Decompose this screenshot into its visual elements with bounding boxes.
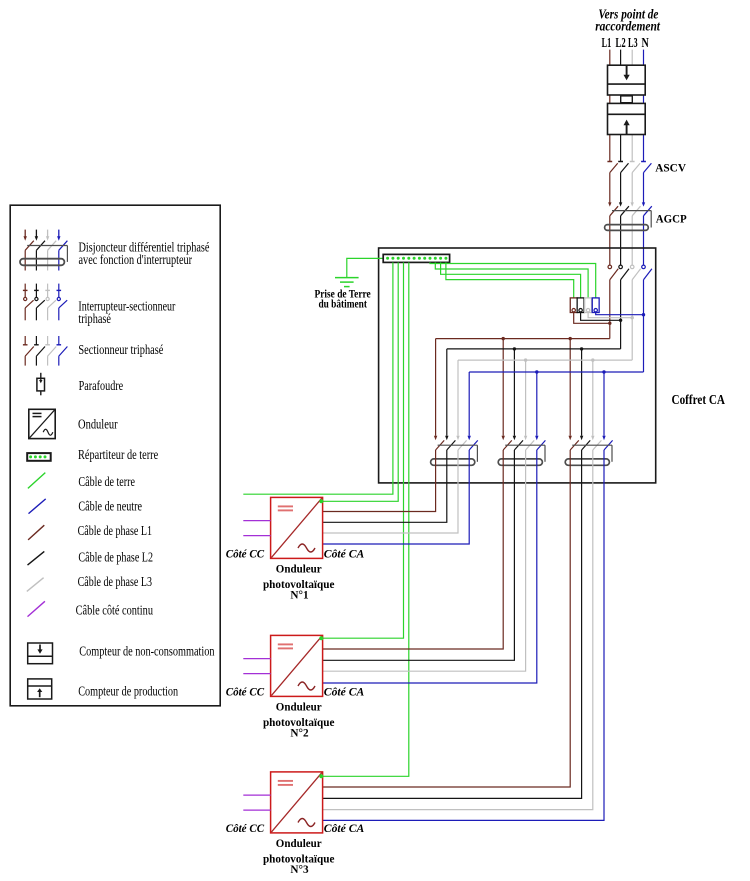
legend: cable cote continu sample [28, 601, 45, 616]
wire L3 meter to ASCV [631, 135, 633, 162]
svg-text:N°3: N°3 [290, 862, 308, 876]
wire terre to parafoudre 3 [441, 262, 581, 298]
wire bus L1 drop to disjoncteur 3 [569, 339, 571, 436]
svg-text:N°1: N°1 [290, 587, 308, 601]
wire L1 switch to bus [609, 280, 611, 339]
wire parafoudre 1 to L1 [574, 313, 610, 324]
disjoncteur differentiel depart onduleur 1 [431, 436, 478, 466]
wire N between meters [643, 95, 645, 103]
disjoncteur differentiel AGCP [605, 202, 652, 264]
wire L3 between meters [631, 95, 633, 103]
wire bus N drop to disjoncteur 1 [468, 372, 470, 436]
wire terre to parafoudre 1 [430, 262, 596, 298]
onduleur U2 (Onduleur photovoltaique N2) [271, 635, 323, 696]
wire L2 between meters [620, 95, 622, 103]
wire L2 switch to bus [620, 280, 622, 349]
svg-text:raccordement: raccordement [595, 20, 661, 35]
wire bus L3 drop to disjoncteur 2 [525, 360, 527, 436]
svg-text:Câble de phase L2: Câble de phase L2 [78, 549, 153, 564]
wire parafoudre 4 to N [596, 313, 644, 315]
wire L1 disjoncteur 1 to onduleur 1 [323, 450, 436, 512]
wire L3 disjoncteur 2 to onduleur 2 [323, 450, 526, 671]
junction L2 / parafoudre 2 [619, 319, 622, 322]
svg-text:Câble de terre: Câble de terre [78, 474, 135, 489]
wire L1 meter to ASCV [609, 135, 611, 162]
wire cote continu onduleur 1 (DC +) [243, 520, 270, 522]
svg-text:Côté CA: Côté CA [324, 547, 365, 561]
svg-text:Compteur de non-consommation: Compteur de non-consommation [79, 644, 215, 659]
wire N disjoncteur 3 to onduleur 3 [323, 450, 604, 820]
junction bus L3 / disjoncteur 2 [524, 358, 527, 361]
interrupteur-sectionneur (coffret) [608, 265, 652, 280]
wire N switch to bus [643, 280, 645, 372]
legend: repartiteur de terre symbol [27, 453, 51, 461]
wire bus L2 drop to disjoncteur 2 [513, 349, 515, 436]
legend: cable de phase L1 sample [28, 525, 44, 540]
svg-text:Câble côté continu: Câble côté continu [76, 602, 154, 617]
wire bus L2 drop to disjoncteur 1 [446, 349, 448, 436]
junction bus L2 / disjoncteur 3 [580, 347, 583, 350]
wire L2 meter to ASCV [620, 135, 622, 162]
legend frame [10, 205, 220, 706]
junction bus L1 / disjoncteur 3 [569, 337, 572, 340]
node terre onduleur 1 [319, 499, 323, 503]
svg-text:Côté CA: Côté CA [324, 821, 365, 835]
svg-text:Côté CC: Côté CC [226, 685, 265, 699]
svg-text:du bâtiment: du bâtiment [318, 297, 367, 311]
meter coupling box [621, 96, 633, 103]
svg-text:L3: L3 [628, 35, 638, 50]
junction bus L2 / disjoncteur 2 [513, 347, 516, 350]
svg-text:Onduleur: Onduleur [276, 700, 323, 714]
svg-text:Parafoudre: Parafoudre [79, 378, 124, 393]
label onduleur 1 [263, 562, 335, 602]
wire L1 disjoncteur 3 to onduleur 3 [323, 450, 571, 787]
legend text interrupteur-sectionneur [78, 299, 175, 326]
wire bus L1 drop to disjoncteur 2 [502, 339, 504, 436]
junction bus L3 / disjoncteur 3 [591, 358, 594, 361]
legend: cable de phase L2 sample [28, 551, 45, 565]
wire terre to onduleur 1 [321, 262, 398, 501]
svg-text:Câble de neutre: Câble de neutre [78, 498, 142, 513]
svg-text:Côté CA: Côté CA [324, 685, 365, 699]
label onduleur 2 [263, 700, 335, 740]
wire bus N drop to disjoncteur 3 [603, 372, 605, 436]
sectionneur ASCV [607, 162, 651, 203]
legend: onduleur symbol [29, 409, 55, 438]
svg-text:Répartiteur de terre: Répartiteur de terre [78, 447, 158, 462]
wire L2 disjoncteur 3 to onduleur 3 [323, 450, 582, 798]
wire cote continu onduleur 2 (DC +) [243, 658, 270, 660]
repartiteur de terre [383, 254, 449, 262]
legend: cable de terre sample [28, 473, 45, 489]
wire terre to onduleur 2 [321, 262, 404, 638]
parafoudre 3 [585, 298, 592, 313]
bus N [469, 371, 643, 373]
wire parafoudre 2 to L2 [581, 313, 621, 321]
label Prise de Terre du batiment [315, 286, 371, 310]
wire terre to onduleur 3 [321, 262, 409, 776]
legend: cable de neutre sample [29, 499, 46, 514]
junction N / parafoudre 4 [642, 313, 645, 316]
wire parafoudre 3 to L3 [588, 313, 632, 318]
wire cote continu onduleur 2 (DC -) [243, 673, 270, 675]
svg-text:Côté CC: Côté CC [226, 547, 265, 561]
compteur de non-consommation (top meter) [608, 65, 646, 95]
svg-text:Onduleur: Onduleur [276, 562, 323, 576]
onduleur U3 (Onduleur photovoltaique N3) [271, 772, 323, 833]
wire bus N drop to disjoncteur 2 [536, 372, 538, 436]
junction bus N / disjoncteur 3 [602, 370, 605, 373]
svg-text:triphasé: triphasé [78, 311, 111, 326]
bus L1 [436, 338, 610, 340]
wire L2 disjoncteur 2 to onduleur 2 [323, 450, 515, 660]
node: Vers point de raccordement label [595, 7, 661, 34]
wire bus L3 drop to disjoncteur 3 [592, 360, 594, 436]
svg-text:Onduleur: Onduleur [276, 836, 323, 850]
svg-text:Onduleur: Onduleur [78, 417, 118, 432]
legend: cable de phase L3 sample [27, 578, 44, 592]
wire N meter to ASCV [643, 135, 645, 162]
wire N disjoncteur 2 to onduleur 2 [323, 450, 537, 683]
svg-text:N°2: N°2 [290, 725, 308, 739]
wire terre to earth electrode [347, 258, 384, 277]
wire L3 entry [631, 50, 633, 66]
junction L3 / parafoudre 3 [631, 316, 634, 319]
svg-text:AGCP: AGCP [656, 211, 687, 225]
svg-text:ASCV: ASCV [655, 161, 686, 175]
junction bus L1 / disjoncteur 2 [502, 337, 505, 340]
wire L3 disjoncteur 3 to onduleur 3 [323, 450, 593, 810]
legend: parafoudre symbol [37, 373, 45, 396]
svg-text:Compteur de production: Compteur de production [78, 684, 178, 699]
legend: interrupteur-sectionneur symbol [23, 284, 67, 321]
wire L1 disjoncteur 2 to onduleur 2 [323, 450, 504, 649]
wire terre to parafoudre 2 [435, 262, 588, 298]
bus L2 [447, 348, 621, 350]
wire cote continu onduleur 3 (DC -) [243, 809, 270, 811]
svg-text:Sectionneur triphasé: Sectionneur triphasé [78, 342, 163, 357]
wire L2 disjoncteur 1 to onduleur 1 [323, 450, 447, 522]
node terre onduleur 3 [319, 774, 323, 778]
wire bus L2 drop to disjoncteur 3 [581, 349, 583, 436]
disjoncteur differentiel depart onduleur 3 [565, 436, 612, 466]
wire bus L3 drop to disjoncteur 1 [457, 360, 459, 436]
label onduleur 3 [263, 836, 335, 876]
legend text disjoncteur [79, 239, 210, 267]
junction bus N / disjoncteur 2 [535, 370, 538, 373]
bus L3 [458, 359, 632, 361]
wire N entry [643, 50, 645, 66]
svg-text:Côté CC: Côté CC [226, 821, 265, 835]
svg-text:Coffret CA: Coffret CA [672, 393, 726, 408]
onduleur U1 (Onduleur photovoltaique N1) [271, 497, 323, 558]
svg-text:avec fonction d'interrupteur: avec fonction d'interrupteur [79, 252, 193, 267]
wire cote continu onduleur 3 (DC +) [243, 794, 270, 796]
wire bus L1 drop to disjoncteur 1 [435, 339, 437, 436]
svg-text:N: N [642, 35, 650, 50]
legend: disjoncteur differentiel triphase symbol [20, 230, 67, 271]
ground: prise de terre [335, 278, 359, 287]
svg-text:L1: L1 [602, 35, 612, 50]
junction L1 / parafoudre 1 [608, 322, 611, 325]
legend: compteur de non-consommation symbol [28, 643, 53, 664]
legend: sectionneur symbol [23, 336, 68, 366]
disjoncteur differentiel depart onduleur 2 [498, 436, 545, 466]
svg-text:Câble de phase L1: Câble de phase L1 [78, 523, 152, 538]
svg-text:L2: L2 [616, 35, 626, 50]
wire L2 entry [620, 50, 622, 66]
compteur de production (second meter) [608, 103, 646, 134]
parafoudre 4 [592, 298, 599, 313]
wire cote continu onduleur 1 (DC -) [243, 535, 270, 537]
wire L3 disjoncteur 1 to onduleur 1 [323, 450, 458, 533]
svg-text:Câble de phase L3: Câble de phase L3 [78, 574, 153, 589]
parafoudre 2 [577, 298, 584, 313]
coffret CA enclosure [379, 248, 656, 483]
wire terre branch (DC side) [243, 262, 393, 494]
legend: compteur de production symbol [28, 679, 52, 699]
parafoudre 1 [570, 298, 577, 313]
wire L1 between meters [609, 95, 611, 103]
wire N disjoncteur 1 to onduleur 1 [323, 450, 470, 544]
node terre onduleur 2 [319, 636, 323, 640]
wire L1 entry [609, 50, 611, 66]
wire L3 switch to bus [631, 280, 633, 360]
wire terre to parafoudre 4 [446, 262, 574, 298]
